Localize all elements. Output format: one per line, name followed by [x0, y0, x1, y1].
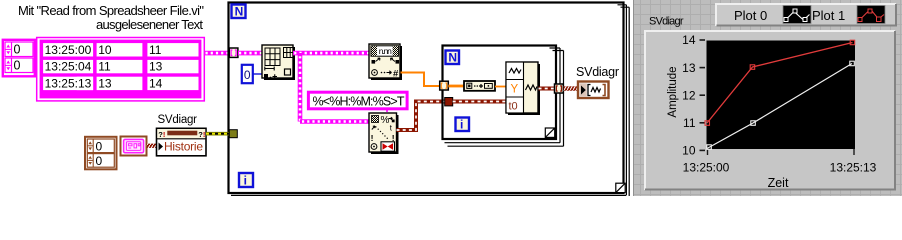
wire: orange from Index Array to Build Waveform Y — [495, 86, 507, 88]
svg-text:N: N — [448, 50, 457, 64]
wire: string from format constant down to Scan From String — [386, 110, 388, 114]
for loop (outer): frame — [229, 3, 630, 197]
svg-text:13:25:13: 13:25:13 — [830, 161, 877, 175]
free label: Mit "Read from Spreadsheer File.vi" ausgelesenener Text — [18, 3, 204, 32]
for loop (inner): frame — [443, 46, 564, 147]
wire: error (olive/yellow dashed) from property node to outer loop tunnel — [206, 132, 230, 136]
tunnel: error cluster (outer loop, left border, solid olive) — [229, 130, 237, 138]
svg-text:13:25:00: 13:25:00 — [683, 161, 730, 175]
svg-text:11: 11 — [149, 43, 162, 57]
function: Fract/Exp String To Number — [369, 44, 402, 80]
svg-text:13: 13 — [98, 77, 112, 91]
wire: waveform array (hatched maroon) from tunnel to indicator — [564, 86, 578, 90]
wire: orange from tunnel to Index Array (1D) — [448, 85, 464, 88]
svg-text:SVdiagr: SVdiagr — [576, 65, 619, 79]
svg-text:10: 10 — [98, 43, 112, 57]
svg-text:11: 11 — [683, 116, 696, 130]
front panel background with grid — [633, 0, 902, 196]
svg-text:11: 11 — [98, 60, 111, 74]
for loop (inner): N count terminal — [446, 50, 460, 64]
wire: string array branch down to Scan From String — [300, 53, 370, 122]
svg-text:13: 13 — [149, 60, 163, 74]
2D string array constant (time/value table) — [37, 38, 205, 101]
svg-text:%<%H:%M:%S>T: %<%H:%M:%S>T — [313, 94, 405, 108]
svg-text:SVdiagr: SVdiagr — [158, 114, 198, 126]
tunnel: 2D string array (outer loop, left border) — [229, 48, 238, 57]
svg-text:Y: Y — [511, 84, 519, 96]
svg-text:13:25:13: 13:25:13 — [45, 77, 92, 91]
svg-text:SVdiagr: SVdiagr — [649, 16, 684, 28]
constant: format string "%<%H:%M:%S>T" — [308, 92, 407, 109]
svg-text:i: i — [460, 117, 463, 131]
y-axis scale labels — [682, 33, 696, 157]
wire: 2D string array from tunnel to Index Array — [238, 51, 262, 56]
svg-text:?!: ?! — [198, 130, 205, 139]
plot 1: red line with square markers — [705, 40, 855, 125]
wire: orange DBL from String To Number down into inner loop — [401, 73, 440, 87]
svg-text:n.nn: n.nn — [379, 46, 392, 56]
tunnel: timestamp (inner loop, left border, solid) — [445, 98, 453, 106]
tunnel: auto-indexing waveform array (inner loop, right border) — [555, 84, 564, 93]
svg-text:Amplitude: Amplitude — [667, 66, 679, 117]
svg-text:14: 14 — [682, 33, 696, 47]
svg-text:!: ! — [371, 133, 374, 143]
svg-text:0: 0 — [14, 43, 21, 57]
wire: I32 from constant to Index Array — [254, 73, 263, 75]
svg-text:14: 14 — [149, 77, 163, 91]
svg-text:i: i — [244, 173, 247, 187]
svg-text:t0: t0 — [509, 101, 518, 113]
plot 0: white line with square markers — [707, 61, 855, 149]
svg-text:13:25:04: 13:25:04 — [45, 60, 92, 74]
wire: timestamp (dashed maroon) from Scan From String to inner loop tunnel — [397, 102, 446, 131]
wire: history data (hatched maroon) from constant to property node — [147, 144, 157, 148]
svg-text:Plot 0: Plot 0 — [734, 8, 767, 23]
constant: I32 "0" (row index) — [242, 65, 253, 83]
tunnel: auto-indexing orange (inner loop, left border) — [440, 81, 449, 90]
svg-text:ausgelesenener Text: ausgelesenener Text — [96, 17, 203, 32]
function: Scan From String (timestamp) — [369, 113, 399, 154]
x-axis tick marks — [708, 149, 855, 155]
svg-text:Zeit: Zeit — [768, 176, 789, 190]
for loop (outer): iteration terminal i — [239, 173, 253, 187]
property node: SVdiagr -> Historie — [157, 128, 207, 156]
for loop (inner): bottom-right fold — [545, 128, 554, 137]
constant: waveform chart history data (pink icon in brown cluster frame) — [121, 137, 147, 156]
function: Index Array (1D, compact) — [464, 81, 495, 91]
svg-text:10: 10 — [682, 144, 696, 158]
cluster constant: two numeric 0s (history init) — [85, 137, 117, 170]
wire: 1D string array row from Index Array to Fract/Exp String To Number — [293, 51, 370, 56]
y-axis tick marks — [700, 40, 706, 150]
svg-text:0: 0 — [96, 139, 103, 153]
waveform chart widget body — [645, 31, 895, 190]
svg-text:?!: ?! — [158, 130, 165, 139]
wire: timestamp from tunnel to Build Waveform t0 — [453, 100, 507, 104]
wire: 2D string array from table to outer loop tunnel — [205, 51, 230, 56]
svg-text:0: 0 — [14, 59, 21, 73]
svg-text:N: N — [235, 4, 244, 18]
svg-text:0: 0 — [244, 68, 251, 82]
array index control (row/col index selectors) — [3, 40, 35, 77]
for loop (outer): N count terminal — [232, 4, 246, 18]
chart plot area (black) — [707, 41, 856, 150]
svg-text:12: 12 — [682, 88, 696, 102]
for loop (outer): bottom-right fold — [616, 183, 625, 192]
indicator terminal: SVdiagr (waveform chart) — [578, 82, 609, 99]
wire: waveform (dashed maroon) from Build Waveform to inner loop output tunnel — [539, 87, 555, 91]
svg-text:Plot 1: Plot 1 — [812, 8, 845, 23]
function: Index Array (2D) U1 — [262, 45, 295, 80]
for loop (inner): iteration terminal i — [456, 117, 470, 131]
svg-text:13: 13 — [682, 61, 696, 75]
svg-text:%: % — [381, 115, 390, 126]
function: Build Waveform — [506, 62, 540, 115]
plot legend bar — [716, 4, 896, 26]
svg-text:Mit "Read from Spreadsheer Fil: Mit "Read from Spreadsheer File.vi" — [18, 3, 204, 18]
svg-text:0: 0 — [96, 154, 103, 168]
svg-text:#: # — [393, 69, 399, 80]
svg-text:Historie: Historie — [164, 140, 203, 154]
svg-text:13:25:00: 13:25:00 — [45, 43, 92, 57]
